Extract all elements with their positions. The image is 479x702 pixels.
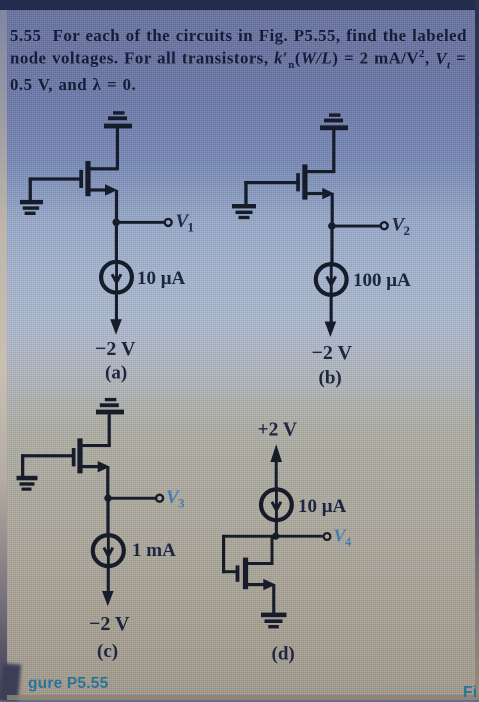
supply arrow up (d) [270, 444, 282, 487]
wire: source to ground (d) [272, 585, 275, 613]
node dot (b) [328, 222, 336, 230]
ground (source of d) [261, 613, 287, 629]
svg-text:3: 3 [178, 496, 185, 511]
svg-text:100 μA: 100 μA [353, 270, 411, 291]
arrowhead to -2V rail (a) [110, 319, 122, 335]
current source I(c) circle [93, 535, 124, 566]
wire: current source to -2V (c) [107, 568, 110, 593]
transistor Q(c) source arrow [82, 461, 110, 472]
top dark border bar [0, 0, 479, 10]
caption fragment: Fi (next column) [463, 684, 477, 702]
ground (gate of b) [232, 204, 256, 219]
wire: node down to drain (d) [246, 537, 274, 565]
arrowhead to -2V rail (b) [325, 322, 337, 338]
node dot (d) [272, 533, 279, 540]
current source I(d) circle [261, 489, 292, 520]
wire: supply to drain (a) [87, 128, 119, 170]
problem statement text [10, 26, 478, 94]
transistor Q(b) source arrow [307, 188, 335, 199]
transistor Q(d) gate bar [236, 565, 240, 581]
wire: source down to node (a) [115, 190, 118, 223]
wire: node to terminal V2 [332, 225, 381, 228]
wire: node to current source (b) [330, 226, 333, 264]
wire: node to current source (a) [115, 222, 118, 261]
svg-text:−2 V: −2 V [95, 338, 136, 360]
svg-text:(d): (d) [272, 644, 295, 665]
supply rail symbol (a) [104, 111, 132, 128]
current source I(a) arrow [112, 259, 121, 296]
arrowhead to -2V rail (c) [102, 591, 114, 606]
node dot (c) [104, 495, 111, 502]
transistor Q(d) source arrow [248, 579, 276, 590]
current source I(b) circle [316, 264, 347, 295]
terminal circle V4 [324, 533, 331, 540]
svg-text:+2 V: +2 V [258, 420, 297, 441]
svg-text:1 mA: 1 mA [132, 540, 176, 561]
wire: supply to drain (b) [304, 130, 335, 173]
ground (gate of a) [20, 200, 43, 215]
wire: node to terminal V1 [116, 221, 164, 224]
wire: gate to ground (c) [21, 454, 72, 477]
svg-text:−2 V: −2 V [312, 342, 353, 364]
svg-text:1: 1 [188, 220, 195, 235]
bottom-left dark corner patch [0, 663, 21, 701]
wire: supply to drain (c) [80, 414, 111, 447]
svg-text:4: 4 [345, 535, 352, 549]
node dot (a) [112, 219, 120, 227]
wire: gate to ground (b) [244, 181, 296, 205]
terminal circle V2 [381, 222, 388, 229]
transistor Q(b) gate bar [296, 173, 300, 191]
left page-edge strip [0, 10, 7, 700]
current source I(c) arrow [104, 533, 113, 570]
transistor Q(d) channel [243, 558, 248, 590]
current source I(d) arrow [272, 487, 281, 524]
wire: gate to ground (a) [29, 177, 80, 201]
transistor Q(a) gate bar [79, 170, 83, 188]
transistor Q(c) gate bar [72, 448, 76, 466]
current source I(a) circle [101, 262, 132, 293]
svg-text:(c): (c) [97, 641, 118, 662]
current source I(b) arrow [327, 262, 336, 299]
supply rail symbol (c) [96, 398, 124, 415]
terminal circle V1 [165, 219, 172, 226]
transistor Q(a) source arrow [90, 184, 117, 195]
wire: current source to node (d) [275, 520, 278, 536]
wire: node to current source (c) [106, 498, 109, 534]
wire: current source to -2V (a) [115, 295, 118, 322]
wire: current source to -2V (b) [330, 297, 333, 324]
wire: node to terminal V4 [276, 535, 323, 538]
svg-text:−2 V: −2 V [89, 613, 130, 635]
svg-text:(b): (b) [319, 368, 342, 389]
transistor Q(a) channel [85, 161, 90, 196]
wire: node to terminal V3 [108, 497, 156, 500]
svg-text:(a): (a) [105, 363, 127, 384]
caption fragment: gure P5.55 [28, 675, 108, 693]
wire: source down to node (c) [106, 467, 109, 499]
svg-text:10 μA: 10 μA [137, 268, 186, 289]
wire: gate feedback loop (d) [222, 535, 276, 574]
svg-text:2: 2 [404, 223, 411, 238]
right dark border bar [475, 0, 479, 700]
bottom edge darker line [7, 695, 479, 700]
terminal circle V3 [156, 495, 163, 502]
ground (gate of c) [17, 476, 38, 491]
wire: source down to node (b) [331, 194, 334, 227]
transistor Q(c) channel [77, 438, 82, 473]
supply rail symbol (b) [320, 113, 348, 130]
svg-text:10 μA: 10 μA [298, 496, 347, 517]
transistor Q(b) channel [302, 164, 307, 199]
